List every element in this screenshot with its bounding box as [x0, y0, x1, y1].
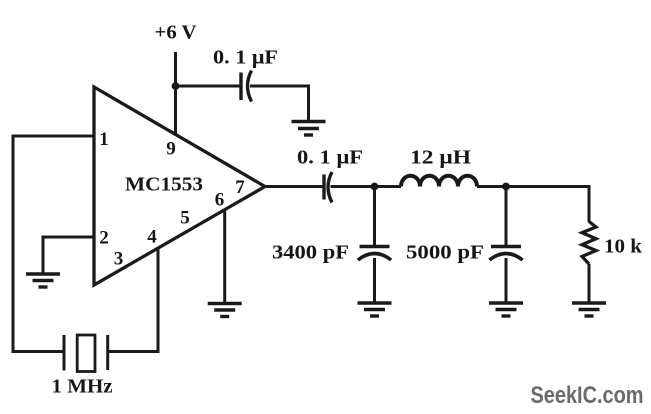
svg-text:3400 pF: 3400 pF	[272, 242, 349, 264]
svg-text:3: 3	[114, 249, 124, 270]
node Vcc junction	[172, 82, 180, 90]
capacitor C1 0.1 uF bypass	[213, 47, 278, 102]
node B junction	[502, 183, 510, 191]
wire node A to L1	[375, 185, 402, 188]
svg-text:5: 5	[180, 208, 190, 229]
op-amp U1 MC1553	[94, 87, 265, 285]
svg-text:+6 V: +6 V	[155, 22, 198, 44]
capacitor C2 0.1 uF coupling	[297, 147, 363, 203]
ground for R1	[572, 303, 606, 316]
capacitor C4 5000 pF	[406, 242, 523, 264]
wire C4 to ground	[505, 258, 508, 303]
wire node B to R1	[506, 187, 589, 223]
wire C3 to ground	[373, 258, 376, 303]
wire node A down to C3	[373, 187, 376, 247]
wire +6V supply down to pin 9	[174, 52, 177, 136]
capacitor C3 3400 pF	[272, 242, 391, 264]
wire C1 to ground	[250, 86, 309, 121]
svg-text:0. 1 μF: 0. 1 μF	[213, 47, 278, 69]
wire Vcc junction to C1	[176, 85, 242, 88]
ground for C3	[358, 303, 392, 316]
wire R1 to ground	[588, 264, 591, 303]
wire pin 6 to ground	[223, 210, 226, 304]
ground for pin 2	[26, 274, 60, 287]
crystal Y1 1 MHz	[52, 335, 113, 398]
wire C2 to node A	[331, 185, 375, 188]
svg-text:12 μH: 12 μH	[410, 147, 472, 169]
svg-text:1: 1	[99, 129, 109, 150]
resistor R1 10 k	[582, 222, 643, 265]
svg-text:MC1553: MC1553	[125, 174, 203, 196]
svg-text:2: 2	[99, 228, 109, 249]
svg-text:1 MHz: 1 MHz	[52, 376, 113, 398]
wire L1 to node B	[477, 185, 506, 188]
svg-text:5000 pF: 5000 pF	[406, 242, 484, 264]
svg-text:0. 1 μF: 0. 1 μF	[297, 147, 363, 169]
svg-text:SeekIC.com: SeekIC.com	[531, 382, 644, 409]
ground for C4	[489, 303, 523, 316]
svg-text:4: 4	[147, 227, 157, 248]
wire crystal to pin 4	[108, 247, 158, 352]
wire node B down to C4	[505, 187, 508, 247]
inductor L1 12 uH	[401, 147, 477, 187]
wire pin 2 to ground	[43, 237, 94, 273]
node A junction	[371, 183, 379, 191]
ground for pin 6	[208, 304, 242, 317]
svg-text:6: 6	[215, 190, 225, 211]
svg-text:9: 9	[166, 139, 176, 160]
svg-text:7: 7	[235, 177, 245, 198]
ground for C1	[292, 122, 326, 136]
svg-text:10 k: 10 k	[604, 236, 643, 258]
wire pin 1 feedback loop to crystal	[13, 136, 94, 352]
wire output pin 7 to C2	[265, 185, 324, 188]
